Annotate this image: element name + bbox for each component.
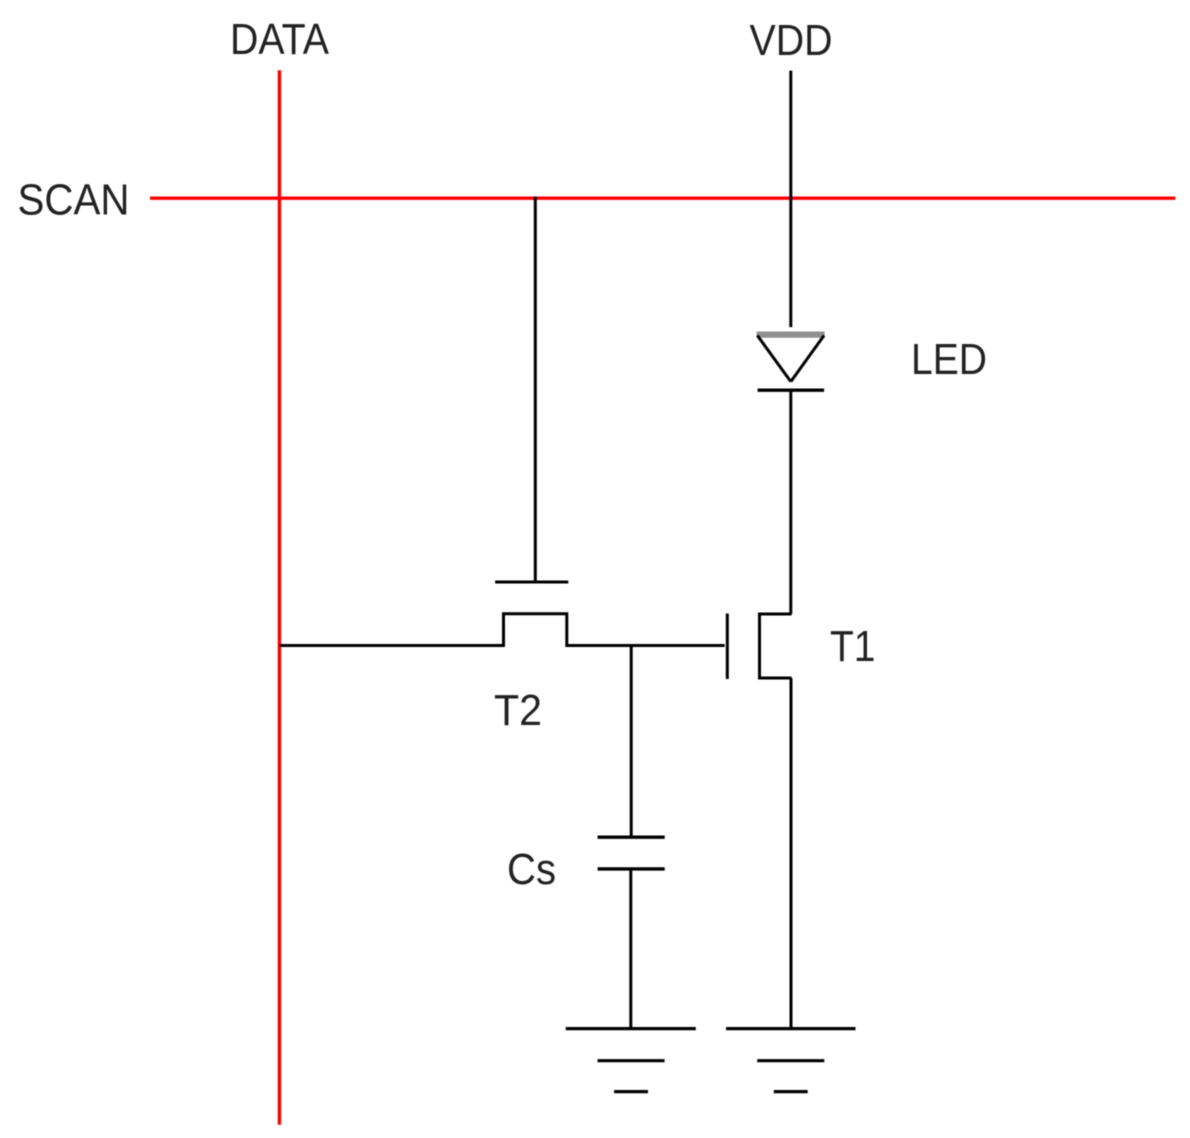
LED D1 triangle right side bbox=[791, 336, 824, 382]
net DATA (red data line) bbox=[278, 70, 281, 1125]
svg-text:T1: T1 bbox=[830, 622, 876, 671]
wire node to capacitor Cs bbox=[630, 646, 633, 838]
svg-text:Cs: Cs bbox=[507, 845, 556, 894]
svg-text:VDD: VDD bbox=[750, 16, 833, 65]
wire DATA to T2 source, channel of T2, on to T1 gate bbox=[280, 614, 725, 646]
wire T1 source to ground bbox=[790, 678, 793, 1029]
net SCAN (red scan line) bbox=[150, 196, 1175, 199]
ground (under Cs) bbox=[566, 1029, 696, 1092]
transistor T2 gate bar bbox=[495, 581, 568, 584]
capacitor Cs bottom plate bbox=[598, 867, 665, 870]
svg-text:LED: LED bbox=[911, 335, 987, 384]
capacitor Cs top plate bbox=[598, 836, 665, 839]
transistor T1 channel bbox=[760, 614, 792, 678]
LED D1 anode gray edge bbox=[757, 332, 825, 338]
LED D1 triangle left side bbox=[757, 336, 790, 382]
svg-text:T2: T2 bbox=[494, 686, 542, 735]
LED D1 cathode bar bbox=[758, 389, 825, 392]
ground (under T1) bbox=[726, 1029, 856, 1092]
wire LED to T1 drain bbox=[789, 390, 792, 614]
wire SCAN to T2 gate bbox=[534, 197, 537, 581]
wire VDD vertical bbox=[789, 71, 792, 328]
svg-text:SCAN: SCAN bbox=[18, 176, 130, 225]
svg-text:DATA: DATA bbox=[230, 15, 330, 64]
wire Cs to ground bbox=[629, 869, 632, 1029]
transistor T1 gate bar bbox=[726, 614, 729, 680]
